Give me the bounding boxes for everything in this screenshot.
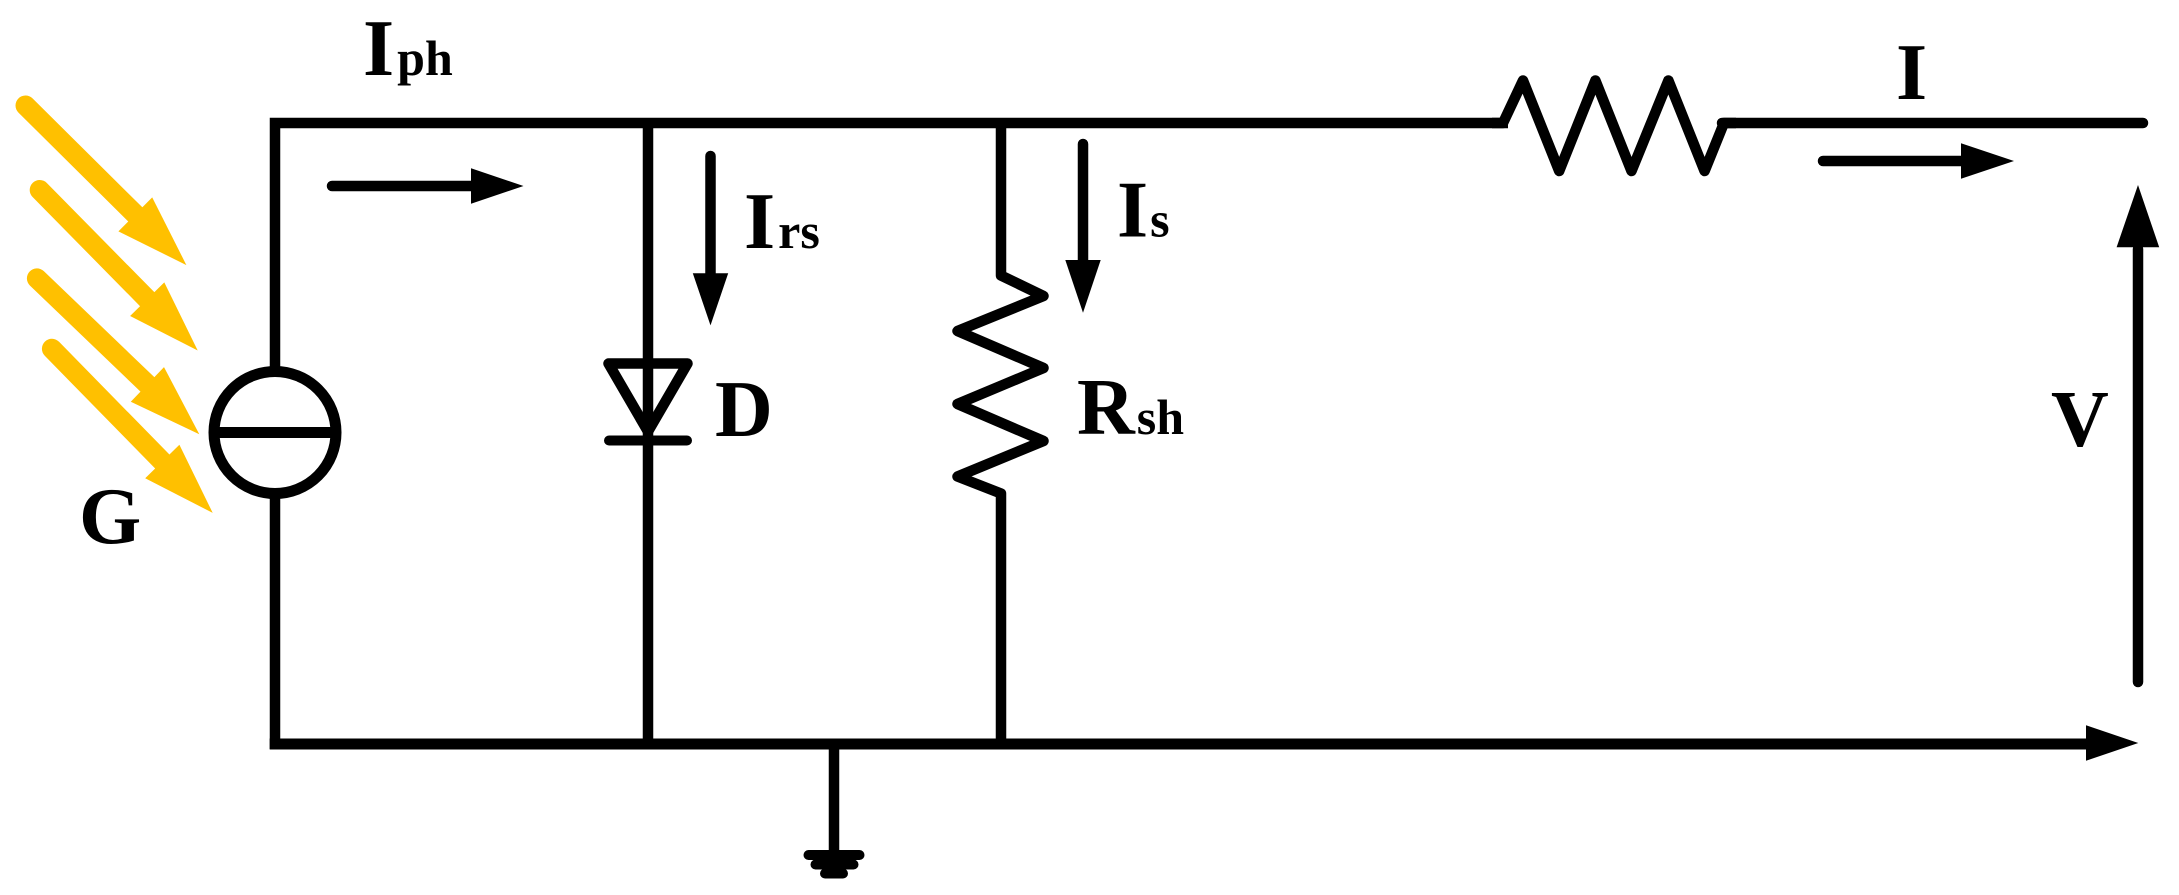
- wire bottom rail: [270, 739, 2088, 750]
- svg-text:Rsh: Rsh: [1077, 364, 1184, 452]
- sun ray 4: [52, 349, 213, 513]
- wire shunt branch with resistor Rsh: [958, 123, 1044, 744]
- wire diode branch: [643, 123, 654, 744]
- current source circle: [214, 372, 336, 494]
- arrow I output: [1823, 156, 1963, 167]
- sun ray 3: [37, 278, 199, 434]
- ground bar 1: [809, 850, 860, 860]
- wire left vertical + top rail left segment: [275, 123, 1508, 371]
- svg-text:V: V: [2051, 376, 2109, 464]
- diode D triangle: [609, 364, 688, 432]
- svg-text:D: D: [715, 366, 773, 454]
- diode D cathode bar: [609, 436, 687, 446]
- resistor R series zigzag: [1492, 81, 1736, 172]
- svg-text:Iph: Iph: [363, 5, 453, 93]
- svg-text:Irs: Irs: [744, 178, 820, 266]
- svg-text:I: I: [1896, 29, 1927, 117]
- ground bar 2: [816, 860, 854, 870]
- ground bar 3: [825, 869, 843, 879]
- sun ray 1: [26, 106, 187, 266]
- wire left vertical below current source: [270, 495, 281, 749]
- arrowhead bottom rail output: [2086, 725, 2138, 761]
- sun ray 2: [40, 190, 198, 351]
- svg-text:G: G: [79, 473, 141, 561]
- arrow V: [2133, 249, 2144, 682]
- arrow Iph current direction: [332, 181, 473, 192]
- current source bar: [214, 427, 336, 438]
- svg-text:Is: Is: [1117, 167, 1170, 255]
- wire top rail right segment: [1722, 118, 2143, 129]
- arrow Irs: [705, 156, 716, 275]
- ground stem: [829, 744, 840, 852]
- arrow Is: [1078, 144, 1089, 262]
